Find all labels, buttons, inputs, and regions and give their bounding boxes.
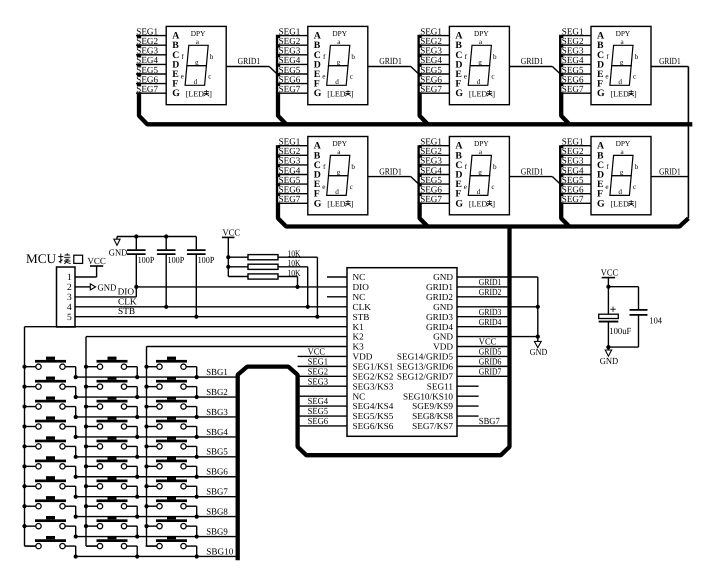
svg-text:VCC: VCC bbox=[88, 257, 106, 267]
svg-text:SEG7: SEG7 bbox=[562, 195, 584, 205]
svg-text:SEG1: SEG1 bbox=[562, 138, 584, 148]
svg-text:GND: GND bbox=[98, 284, 117, 294]
svg-text:GRID6: GRID6 bbox=[479, 357, 502, 367]
svg-text:K3: K3 bbox=[353, 342, 365, 352]
svg-text:SBG1: SBG1 bbox=[206, 368, 228, 378]
svg-text:SEG2: SEG2 bbox=[136, 37, 158, 47]
svg-text:SEG6: SEG6 bbox=[279, 186, 301, 196]
svg-text:VCC: VCC bbox=[479, 338, 497, 348]
svg-text:SEG5/KS5: SEG5/KS5 bbox=[353, 411, 394, 421]
svg-text:NC: NC bbox=[353, 391, 366, 401]
svg-text:GND: GND bbox=[109, 248, 128, 258]
svg-text:STB: STB bbox=[118, 307, 135, 317]
svg-text:104: 104 bbox=[649, 317, 662, 327]
svg-text:GRID1: GRID1 bbox=[238, 57, 261, 67]
svg-text:100uF: 100uF bbox=[609, 327, 631, 337]
svg-text:SEG1: SEG1 bbox=[279, 27, 301, 37]
svg-text:SEG1: SEG1 bbox=[562, 27, 584, 37]
svg-text:VDD: VDD bbox=[433, 342, 453, 352]
svg-text:SEG7: SEG7 bbox=[420, 85, 442, 95]
svg-text:SBG9: SBG9 bbox=[206, 527, 228, 537]
svg-text:SEG5: SEG5 bbox=[562, 66, 584, 76]
svg-text:SBG5: SBG5 bbox=[206, 448, 228, 458]
svg-text:SEG3: SEG3 bbox=[279, 157, 301, 167]
svg-text:10K: 10K bbox=[288, 250, 301, 260]
svg-text:SEG4: SEG4 bbox=[562, 166, 584, 176]
svg-text:100P: 100P bbox=[138, 256, 155, 266]
svg-text:SEG5: SEG5 bbox=[562, 176, 584, 186]
svg-text:SEG7: SEG7 bbox=[279, 85, 301, 95]
svg-text:SBG4: SBG4 bbox=[206, 428, 228, 438]
svg-text:DIO: DIO bbox=[118, 288, 135, 298]
svg-text:SEG11: SEG11 bbox=[427, 381, 454, 391]
svg-text:2: 2 bbox=[67, 283, 72, 293]
svg-text:GRID1: GRID1 bbox=[521, 167, 544, 177]
svg-text:K2: K2 bbox=[353, 332, 365, 342]
svg-text:SBG8: SBG8 bbox=[206, 508, 228, 518]
svg-text:SEG5: SEG5 bbox=[136, 66, 158, 76]
svg-text:SEG6/KS6: SEG6/KS6 bbox=[353, 421, 394, 431]
svg-text:SEG5: SEG5 bbox=[420, 66, 442, 76]
svg-text:SEG4: SEG4 bbox=[279, 56, 301, 66]
svg-text:SEG2/KS2: SEG2/KS2 bbox=[353, 371, 394, 381]
svg-text:SEG3: SEG3 bbox=[308, 377, 329, 387]
svg-text:SEG4: SEG4 bbox=[308, 397, 329, 407]
svg-text:SEG10/KS10: SEG10/KS10 bbox=[403, 391, 453, 401]
svg-text:GRID3: GRID3 bbox=[426, 312, 453, 322]
svg-text:10K: 10K bbox=[288, 259, 301, 269]
svg-text:SEG6: SEG6 bbox=[562, 75, 584, 85]
svg-text:SEG5: SEG5 bbox=[279, 176, 301, 186]
svg-text:SEG6: SEG6 bbox=[420, 75, 442, 85]
svg-text:MCU: MCU bbox=[26, 251, 57, 266]
svg-text:SEG12/GRID7: SEG12/GRID7 bbox=[397, 371, 454, 381]
svg-text:SEG4: SEG4 bbox=[279, 166, 301, 176]
svg-text:SEG2: SEG2 bbox=[420, 37, 442, 47]
svg-text:1: 1 bbox=[67, 273, 72, 283]
svg-text:SEG7: SEG7 bbox=[136, 85, 158, 95]
svg-text:SEG3: SEG3 bbox=[420, 47, 442, 57]
svg-text:GRID4: GRID4 bbox=[479, 318, 502, 328]
svg-text:SEG2: SEG2 bbox=[562, 37, 584, 47]
svg-text:SEG7/KS7: SEG7/KS7 bbox=[412, 421, 453, 431]
svg-text:GRID1: GRID1 bbox=[479, 278, 502, 288]
svg-text:GRID3: GRID3 bbox=[479, 308, 502, 318]
svg-text:DIO: DIO bbox=[353, 282, 370, 292]
svg-text:VCC: VCC bbox=[308, 348, 326, 358]
svg-text:SEG3: SEG3 bbox=[420, 157, 442, 167]
svg-text:SEG2: SEG2 bbox=[420, 147, 442, 157]
svg-text:SEG1: SEG1 bbox=[136, 27, 158, 37]
svg-text:SBG7: SBG7 bbox=[479, 417, 500, 427]
svg-text:SEG2: SEG2 bbox=[308, 367, 329, 377]
svg-text:STB: STB bbox=[353, 312, 370, 322]
svg-text:SEG13/GRID6: SEG13/GRID6 bbox=[397, 361, 454, 371]
svg-text:SEG4: SEG4 bbox=[136, 56, 158, 66]
svg-text:GRID5: GRID5 bbox=[479, 348, 502, 358]
svg-text:GRID2: GRID2 bbox=[426, 292, 453, 302]
svg-text:SEG3: SEG3 bbox=[136, 47, 158, 57]
svg-text:SEG7: SEG7 bbox=[562, 85, 584, 95]
svg-text:SBG6: SBG6 bbox=[206, 468, 228, 478]
svg-text:SEG4: SEG4 bbox=[420, 166, 442, 176]
svg-text:SEG6: SEG6 bbox=[562, 186, 584, 196]
svg-text:GND: GND bbox=[433, 302, 453, 312]
svg-text:GRID1: GRID1 bbox=[379, 57, 402, 67]
svg-text:SEG6: SEG6 bbox=[279, 75, 301, 85]
svg-text:SEG7: SEG7 bbox=[279, 195, 301, 205]
svg-text:VDD: VDD bbox=[353, 352, 373, 362]
svg-text:SEG3: SEG3 bbox=[562, 47, 584, 57]
svg-text:SEG5: SEG5 bbox=[279, 66, 301, 76]
svg-text:SGE9/KS9: SGE9/KS9 bbox=[412, 401, 453, 411]
svg-text:SEG14/GRID5: SEG14/GRID5 bbox=[397, 352, 454, 362]
svg-text:SEG1: SEG1 bbox=[279, 138, 301, 148]
svg-text:K1: K1 bbox=[353, 322, 365, 332]
svg-text:SEG6: SEG6 bbox=[136, 75, 158, 85]
svg-text:SEG8/KS8: SEG8/KS8 bbox=[412, 411, 453, 421]
svg-text:SEG1/KS1: SEG1/KS1 bbox=[353, 361, 394, 371]
svg-text:SEG3/KS3: SEG3/KS3 bbox=[353, 381, 394, 391]
svg-text:SBG10: SBG10 bbox=[206, 547, 233, 557]
svg-text:GRID7: GRID7 bbox=[479, 367, 502, 377]
svg-text:SEG4: SEG4 bbox=[562, 56, 584, 66]
svg-text:SEG4/KS4: SEG4/KS4 bbox=[353, 401, 394, 411]
svg-text:5: 5 bbox=[67, 313, 72, 323]
svg-text:SEG1: SEG1 bbox=[308, 357, 329, 367]
svg-text:GRID1: GRID1 bbox=[521, 57, 544, 67]
svg-text:SBG3: SBG3 bbox=[206, 408, 228, 418]
svg-text:SEG6: SEG6 bbox=[308, 417, 329, 427]
svg-text:SBG7: SBG7 bbox=[206, 488, 228, 498]
svg-text:100P: 100P bbox=[198, 256, 215, 266]
svg-text:NC: NC bbox=[353, 272, 366, 282]
svg-text:SEG7: SEG7 bbox=[420, 195, 442, 205]
svg-text:GND: GND bbox=[433, 272, 453, 282]
svg-text:SEG3: SEG3 bbox=[279, 47, 301, 57]
svg-text:GRID1: GRID1 bbox=[659, 57, 681, 67]
svg-text:VCC: VCC bbox=[601, 268, 618, 278]
svg-text:GND: GND bbox=[600, 357, 619, 367]
svg-text:SEG3: SEG3 bbox=[562, 157, 584, 167]
svg-text:10K: 10K bbox=[288, 269, 301, 279]
svg-text:SEG5: SEG5 bbox=[308, 407, 329, 417]
svg-text:GRID1: GRID1 bbox=[379, 167, 402, 177]
svg-text:CLK: CLK bbox=[353, 302, 372, 312]
svg-text:GRID1: GRID1 bbox=[659, 167, 681, 177]
svg-text:GND: GND bbox=[530, 348, 548, 358]
svg-text:SBG2: SBG2 bbox=[206, 388, 228, 398]
svg-text:SEG2: SEG2 bbox=[279, 147, 301, 157]
svg-text:SEG1: SEG1 bbox=[420, 27, 442, 37]
svg-text:SEG2: SEG2 bbox=[562, 147, 584, 157]
svg-text:GRID2: GRID2 bbox=[479, 288, 502, 298]
svg-text:GRID1: GRID1 bbox=[426, 282, 453, 292]
svg-text:SEG2: SEG2 bbox=[279, 37, 301, 47]
svg-text:SEG1: SEG1 bbox=[420, 138, 442, 148]
svg-text:CLK: CLK bbox=[118, 297, 137, 307]
svg-text:NC: NC bbox=[353, 292, 366, 302]
svg-text:GRID4: GRID4 bbox=[426, 322, 453, 332]
svg-text:SEG5: SEG5 bbox=[420, 176, 442, 186]
svg-text:3: 3 bbox=[67, 293, 72, 303]
svg-text:SEG4: SEG4 bbox=[420, 56, 442, 66]
svg-text:4: 4 bbox=[67, 303, 72, 313]
svg-text:GND: GND bbox=[433, 332, 453, 342]
svg-text:100P: 100P bbox=[168, 256, 185, 266]
svg-text:SEG6: SEG6 bbox=[420, 186, 442, 196]
